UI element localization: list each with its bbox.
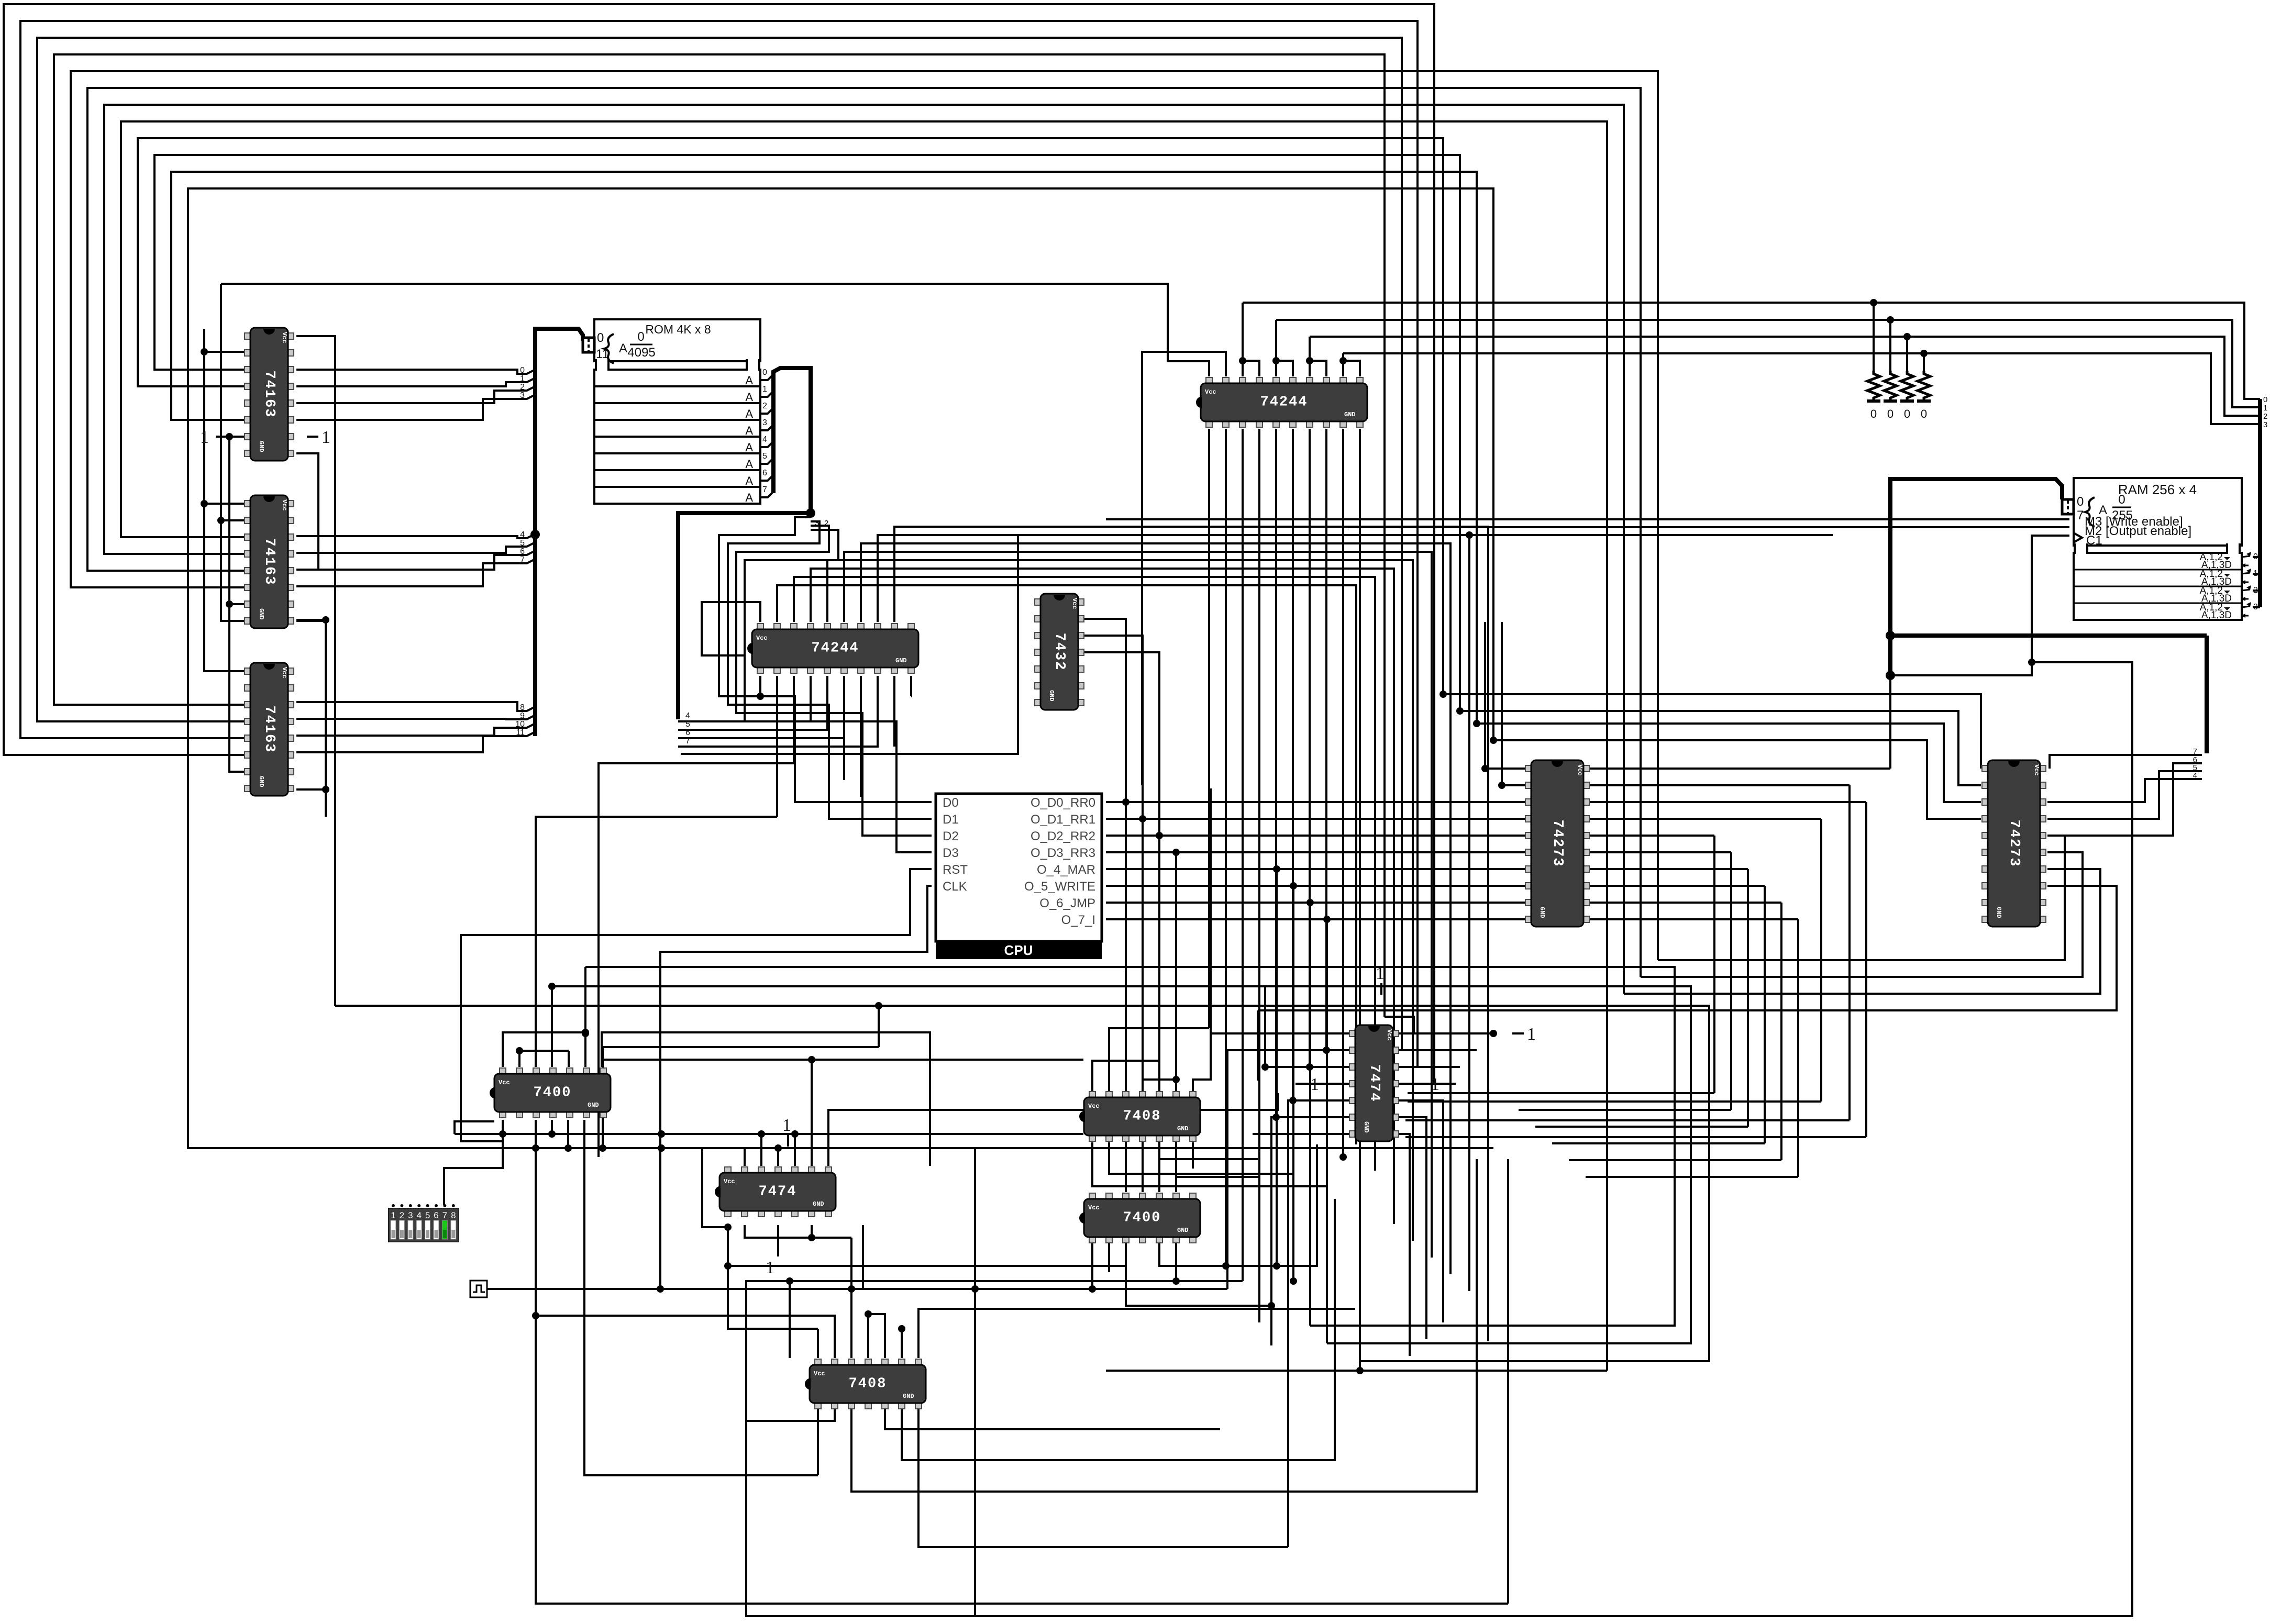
wire junction: [548, 1130, 556, 1138]
svg-text:O_7_I: O_7_I: [1061, 913, 1095, 927]
wire junction: [1156, 832, 1163, 839]
svg-text:CPU: CPU: [1004, 942, 1033, 958]
net 7432 out pin4 to weave: [1084, 652, 1159, 836]
wire stub: [759, 676, 761, 696]
svg-text:2: 2: [2263, 412, 2267, 421]
stub: [229, 436, 244, 438]
wire junction: [1490, 1030, 1497, 1037]
wire junction: [657, 1285, 664, 1293]
stub: [901, 1329, 903, 1358]
wire junction: [786, 1277, 793, 1285]
net ROM D5 -> 74244 U8 input: [678, 676, 827, 730]
net counter out 7 to address bus: [296, 559, 535, 586]
net U9 buffer output drop: [1292, 429, 1294, 1100]
net U9 buffer output drop: [1208, 429, 1210, 1028]
svg-text:3: 3: [408, 1210, 413, 1220]
wire junction: [848, 1285, 855, 1293]
net ROM D6 -> 74244 U8 input: [678, 676, 844, 738]
svg-text:7400: 7400: [534, 1085, 572, 1101]
IC U2 74163 vertical: [245, 495, 294, 628]
svg-text:1: 1: [1527, 1025, 1536, 1044]
wire junction: [226, 433, 233, 440]
net y2789 x2549: [902, 1199, 1335, 1460]
wire junction: [1172, 1076, 1180, 1083]
net bottom3: [885, 1404, 1220, 1429]
wire junction: [1172, 1277, 1180, 1285]
constant 1: [1431, 1075, 1456, 1094]
wire junction: [1339, 1153, 1347, 1161]
stub: [1108, 1239, 1110, 1272]
wire junction: [1323, 1047, 1330, 1054]
net CPU output: [1106, 851, 1528, 853]
net buffer U8 out into weave: [777, 585, 1356, 1144]
net counter out 1 to address bus: [296, 378, 535, 386]
svg-text:7408: 7408: [849, 1376, 887, 1392]
wire junction: [808, 1234, 815, 1241]
net U9 pin2 left down x2181: [1142, 352, 1226, 785]
svg-text:RST: RST: [943, 863, 968, 877]
net RAM split: [2187, 754, 2202, 756]
svg-text:Vcc: Vcc: [1205, 388, 1216, 396]
resistor pull-down at x=3642: [1900, 371, 1914, 420]
net y2418 left extend: [728, 1265, 1126, 1267]
wire junction: [1306, 357, 1313, 364]
svg-text:74163: 74163: [261, 538, 277, 585]
svg-text:7474: 7474: [759, 1184, 797, 1200]
net x1944 down then left: [681, 535, 1018, 754]
svg-text:A: A: [745, 391, 753, 404]
svg-text:GND: GND: [895, 657, 907, 664]
net chain x608: [296, 453, 318, 570]
wire junction: [1139, 815, 1146, 822]
net x640 to y1921: [296, 336, 335, 1006]
constant 1: [1512, 1025, 1536, 1044]
net x1151 down: [602, 1047, 604, 1148]
wire junction: [1272, 1114, 1280, 1121]
drop: [1780, 903, 1782, 1160]
bus loop 3: [54, 54, 1385, 1017]
svg-text:4: 4: [520, 530, 525, 539]
net 7408 to 7400#2: [1092, 1142, 1327, 1192]
svg-text:8: 8: [451, 1210, 456, 1220]
net RAM M2 output enable: [1791, 526, 2069, 528]
net y542 to 74244 U9 pin1: [221, 284, 1209, 376]
net U10 output right: [1587, 885, 1765, 887]
net right pin6 down: [1399, 1117, 1426, 1339]
wire junction: [724, 1223, 732, 1231]
svg-text:GND: GND: [1538, 907, 1546, 918]
net U10 output right: [1587, 767, 1890, 770]
net right pin4 to const: [1399, 1083, 1456, 1085]
net U9 buffer output drop: [1242, 429, 1244, 1281]
wire junction: [758, 1130, 765, 1138]
net bus line drop to U9 pin: [1242, 303, 1244, 376]
net data bus line to RAM side: [1310, 337, 2260, 416]
net ROM D2 -> CPU D2: [736, 526, 932, 836]
drop: [1747, 869, 1749, 1127]
net data bus line to RAM side: [1276, 320, 2260, 407]
net 7400 pin7 path: [602, 1032, 930, 1166]
wire junction: [658, 1144, 665, 1152]
svg-text:A: A: [619, 341, 627, 355]
constant 1: [782, 1116, 791, 1147]
net counter out 5 to address bus: [296, 542, 535, 553]
stub: [502, 1120, 504, 1134]
svg-text:2: 2: [2253, 586, 2258, 595]
stub RAM row pin: [2253, 556, 2260, 558]
net pin5 long down: [1288, 1100, 1349, 1547]
stub: [221, 519, 244, 521]
svg-text:7: 7: [685, 737, 690, 746]
constant 1: [1376, 964, 1385, 995]
net RST: [461, 869, 932, 1141]
wire resistor tap: [1889, 320, 1891, 371]
net loop8 -> 74273 U13 pin1: [1443, 694, 1981, 769]
svg-text:O_4_MAR: O_4_MAR: [1037, 863, 1095, 877]
net 7408 pin2 up right: [1109, 1028, 1209, 1093]
svg-text:GND: GND: [258, 608, 265, 620]
net counter out 10 to address bus: [296, 724, 535, 736]
wire junction: [791, 1130, 799, 1138]
net U8 output drop: [793, 676, 795, 763]
net U9 buffer output drop: [1325, 429, 1327, 1050]
stub RAM row pin: [2253, 606, 2260, 608]
net U5 pin2b y2364: [745, 1225, 851, 1238]
wire junction: [1272, 357, 1280, 364]
net bottom2: [746, 1404, 835, 1421]
net y2000: [603, 1046, 879, 1048]
net CPU output branch down: [1158, 836, 1160, 1192]
IC U9 74244 horizontal: [1196, 377, 1367, 427]
stub: [229, 603, 244, 605]
svg-text:O_D2_RR2: O_D2_RR2: [1031, 829, 1095, 843]
net counter out 2 to address bus: [296, 386, 535, 403]
wire junction: [1886, 631, 1895, 640]
drop: [1764, 886, 1766, 1143]
net U5 pin7 hook long down: [828, 1148, 975, 1616]
stub: [794, 1134, 796, 1166]
svg-text:2: 2: [520, 383, 525, 392]
wire junction: [322, 616, 329, 624]
wire junction: [1306, 899, 1314, 906]
svg-text:CLK: CLK: [943, 880, 967, 894]
bus RAM out down: [2205, 636, 2209, 753]
svg-text:4: 4: [685, 711, 690, 720]
net U10 output right: [1587, 784, 1850, 786]
svg-text:74244: 74244: [1260, 395, 1308, 410]
net U10 output right: [1587, 868, 1748, 870]
h back: [1586, 1176, 1798, 1178]
wire junction: [865, 1310, 872, 1318]
net y2166 long: [455, 1133, 1083, 1135]
net CPU output branch down: [1125, 802, 1127, 1192]
net MAR vertical up: [1889, 675, 1891, 769]
svg-text:Vcc: Vcc: [1088, 1103, 1100, 1110]
wire junction: [1870, 299, 1877, 306]
net y1022 right extend: [1469, 534, 1833, 536]
svg-text:D0: D0: [943, 796, 959, 810]
svg-text:Vcc: Vcc: [281, 499, 288, 511]
net loop11 -> 74273 U13 pin4: [1493, 740, 1981, 819]
net U10 output right: [1587, 801, 1866, 803]
net CPU output: [1106, 885, 1528, 887]
wire junction: [1239, 357, 1246, 364]
net buffer U8 out into weave: [794, 577, 1375, 1171]
net direct: [1125, 1142, 1127, 1192]
wire junction: [806, 508, 815, 518]
svg-text:A: A: [745, 491, 753, 504]
net 7400 pin1 up: [503, 1032, 585, 1067]
net pin6: [1271, 1117, 1349, 1345]
wire junction: [1466, 531, 1473, 539]
net CPU output branch down: [1309, 903, 1311, 1326]
svg-text:0: 0: [1887, 407, 1893, 420]
net x2868 up: [1501, 622, 1503, 785]
net pin3: [1265, 1066, 1349, 1068]
net ROM D1 -> CPU D1: [728, 521, 932, 819]
net RAM M3 write enable: [1106, 518, 2069, 520]
svg-text:7: 7: [2193, 747, 2197, 756]
DIP switch 8: [389, 1204, 459, 1242]
wire junction: [1456, 707, 1464, 715]
wire junction: [1886, 671, 1895, 680]
CPU block: [936, 794, 1102, 959]
net: [1109, 1142, 1293, 1192]
net CLK branch right: [660, 1225, 863, 1289]
net y1847 long zigzag: [585, 967, 1675, 1326]
svg-text:3: 3: [2253, 603, 2258, 611]
wire resistor tap: [1906, 337, 1908, 371]
net 7432 out pin2 to weave: [1084, 619, 1126, 802]
svg-text:0: 0: [637, 330, 644, 344]
wire junction: [1323, 916, 1331, 923]
svg-text:74273: 74273: [2006, 819, 2022, 867]
net U13 L c joins loop6: [1624, 869, 2100, 994]
wire junction: [1887, 316, 1894, 324]
h back: [1552, 1142, 1765, 1144]
svg-text:6: 6: [762, 469, 767, 477]
svg-text:4095: 4095: [627, 346, 655, 360]
wire junction: [548, 983, 556, 990]
svg-text:1: 1: [2253, 569, 2258, 578]
bus loop 0: [4, 4, 1434, 1084]
net y2955: [918, 1404, 1288, 1547]
svg-text:0: 0: [2077, 495, 2084, 509]
wire junction: [757, 693, 764, 700]
svg-text:2: 2: [400, 1210, 404, 1220]
net right: [918, 1309, 1355, 1358]
net CPU output: [1106, 902, 1528, 904]
wire junction: [971, 1285, 979, 1293]
svg-text:1: 1: [1310, 1075, 1319, 1094]
svg-text:1: 1: [520, 374, 525, 383]
net ROM D3 -> CPU D3: [745, 530, 932, 852]
svg-text:8: 8: [520, 703, 525, 712]
svg-text:3: 3: [520, 391, 525, 400]
h back: [1569, 1159, 1781, 1161]
wire stub loop0 to 7474 U12 pin4: [1409, 1083, 1434, 1085]
resistor pull-down at x=3578: [1867, 371, 1880, 420]
svg-text:1: 1: [766, 1258, 774, 1277]
svg-text:7408: 7408: [1123, 1109, 1161, 1125]
wire junction: [201, 500, 208, 507]
svg-text:A: A: [745, 424, 753, 437]
net right pin7 down: [1399, 1134, 1410, 1356]
svg-text:0: 0: [2263, 395, 2267, 404]
hook: [868, 1314, 885, 1358]
net x1678 up: [878, 1006, 880, 1047]
svg-text:6: 6: [434, 1210, 438, 1220]
svg-text:74163: 74163: [261, 705, 277, 753]
resistor pull-down at x=3674: [1917, 371, 1931, 420]
net up to 7474#2: [1159, 1144, 1317, 1266]
net RAM d4: [2047, 779, 2187, 802]
IC U13 74273 vertical: [1982, 760, 2046, 927]
IC U3 74163 vertical: [245, 663, 294, 796]
wire junction: [499, 1130, 506, 1138]
svg-text:1: 1: [2263, 404, 2267, 413]
svg-text:1: 1: [1431, 1075, 1439, 1094]
net loop10 -> 74273 U13 pin3: [1477, 724, 1981, 802]
up: [1264, 986, 1266, 1067]
wire junction: [217, 517, 225, 524]
svg-text:Vcc: Vcc: [724, 1178, 735, 1185]
wire junction: [774, 1144, 782, 1152]
net CPU output branch down: [1326, 919, 1328, 1343]
stub RAM row pin: [2253, 573, 2260, 575]
wire junction: [898, 1325, 905, 1332]
h back2: [1408, 1092, 1714, 1094]
net pin4 const1 stub: [1295, 1083, 1349, 1085]
stub: [296, 788, 326, 791]
wire junction: [1261, 1063, 1269, 1071]
net 7400 pin2 hook: [519, 1051, 569, 1067]
svg-text:7: 7: [520, 555, 525, 564]
wire junction: [532, 1144, 539, 1152]
svg-text:7: 7: [762, 485, 767, 494]
drop: [1865, 802, 1867, 1137]
net y1884 long zigzag: [552, 986, 1691, 1343]
net U13 L a joins loop4: [1658, 836, 2065, 960]
net counter out 8 to address bus: [296, 702, 535, 711]
stub 7408#2 pin1 up: [817, 1329, 819, 1358]
net loop9 -> 74273 U13 pin2: [1460, 711, 1981, 785]
net counter out 9 to address bus: [296, 715, 535, 719]
net counter out 6 to address bus: [296, 551, 535, 570]
net data bus line to RAM side: [1343, 353, 2260, 424]
wire junction: [1273, 1262, 1280, 1270]
IC U5 7474 horizontal: [715, 1167, 836, 1217]
bus RAM out left: [1890, 633, 2207, 638]
wire junction: [1490, 737, 1497, 744]
net DIP switch to gate: [444, 1134, 503, 1205]
svg-text:Vcc: Vcc: [281, 667, 288, 678]
svg-text:7432: 7432: [1051, 633, 1067, 671]
IC U11 7400 horizontal: [1079, 1193, 1200, 1243]
h back: [1405, 1136, 1866, 1138]
svg-text:D2: D2: [943, 829, 959, 843]
svg-text:2: 2: [762, 402, 767, 410]
net x2402 drop: [1257, 1010, 1259, 1081]
net counter out 4 to address bus: [296, 534, 535, 538]
net U9 buffer output drop: [1342, 429, 1344, 1157]
net into U10: [1485, 767, 1528, 770]
stub: [867, 1314, 869, 1358]
net y1560 to 7400 pin3: [536, 817, 777, 1067]
svg-text:Vcc: Vcc: [1386, 1029, 1393, 1041]
wire junction: [1339, 357, 1347, 364]
net U9 buffer output drop: [1258, 429, 1260, 1322]
bus ROM data out right: [773, 368, 811, 513]
net right pin5 down: [1399, 1100, 1443, 1322]
stub 7408#2 pin1 down: [817, 1404, 819, 1475]
net buffer U8 out into weave: [878, 535, 1469, 1291]
IC U14 7408 horizontal: [805, 1359, 926, 1409]
net 7400#2 out right: [1126, 1239, 1271, 1306]
svg-text:Vcc: Vcc: [1071, 598, 1078, 609]
stub: [777, 1148, 779, 1166]
svg-text:1: 1: [322, 428, 330, 447]
net data bus line to RAM side: [1243, 303, 2260, 399]
svg-text:Vcc: Vcc: [756, 635, 768, 642]
svg-text:A: A: [745, 458, 753, 471]
net right pin2: [1399, 1049, 1477, 1051]
net CPU output: [1106, 801, 1528, 803]
net hook to paired pin: [1243, 361, 1259, 376]
wire junction: [530, 530, 540, 539]
IC U10 74273 vertical: [1525, 760, 1589, 927]
wire junction: [1289, 1097, 1297, 1104]
wire junction: [724, 1262, 732, 1270]
net 7408 pin1 up: [1092, 1061, 1159, 1093]
net bus line drop to U9 pin: [1275, 320, 1277, 376]
net 7400 pin3 x1023 to bottom: [536, 1120, 1508, 1604]
net buffer U8 out into weave: [811, 569, 1394, 1224]
svg-text:7474: 7474: [1366, 1064, 1382, 1103]
svg-text:6: 6: [520, 547, 525, 556]
h back: [1408, 1100, 1821, 1103]
drop: [1713, 836, 1715, 1093]
svg-text:1: 1: [200, 428, 209, 447]
wire stub: [296, 619, 326, 621]
svg-text:5: 5: [425, 1210, 430, 1220]
net U9 buffer output drop: [1275, 429, 1277, 1117]
bus loop 9: [154, 155, 1460, 711]
net right pin3: [1399, 1066, 1460, 1068]
stub const: [777, 1225, 779, 1256]
net CPU output branch down: [1292, 886, 1294, 1281]
net U9 buffer output drop: [1309, 429, 1311, 1067]
svg-text:5: 5: [762, 452, 767, 461]
wire junction: [1089, 1285, 1096, 1293]
wire junction: [1481, 765, 1489, 772]
net x1118 drop: [584, 967, 586, 1033]
svg-text:5: 5: [685, 720, 690, 729]
wire junction: [582, 1029, 589, 1036]
stub: [1175, 1239, 1177, 1281]
net U8 output drop: [776, 676, 778, 817]
svg-text:1: 1: [762, 385, 767, 394]
IC U8 74244 horizontal: [747, 624, 918, 673]
net const1 chain x438: [216, 437, 244, 772]
stub: [811, 1060, 813, 1166]
net x2836 up: [1484, 622, 1486, 769]
net hook to paired pin: [1276, 361, 1293, 376]
IC U7 7408 horizontal: [1079, 1092, 1200, 1141]
stub pin5 down: [567, 1120, 569, 1148]
wire junction: [1356, 1367, 1364, 1374]
wire junction: [1122, 798, 1130, 806]
